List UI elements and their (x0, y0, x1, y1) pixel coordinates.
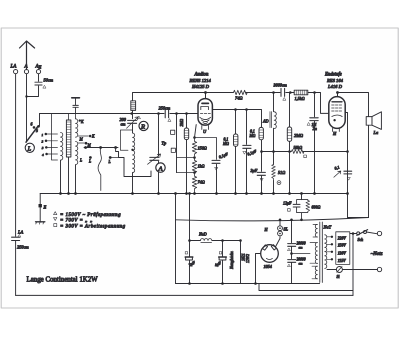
svg-text:74Ω: 74Ω (235, 95, 243, 100)
resistor 1.5kOhm wirewound (294, 90, 308, 95)
svg-text:3: 3 (42, 146, 44, 150)
legend square 300V (54, 224, 57, 227)
svg-text:Lange Continental 1K2W: Lange Continental 1K2W (27, 277, 99, 284)
choke AD (273, 93, 275, 112)
op tube Audion U1 (198, 99, 212, 126)
tap labels K M L (79, 119, 81, 121)
resistor 50kOhm (291, 150, 304, 154)
trimmer 200cm (128, 120, 137, 123)
mains terminal 1 (377, 231, 381, 235)
capacitor 3000cm (281, 88, 285, 96)
capacitor 4uF (222, 241, 224, 258)
antenna symbol (20, 41, 35, 70)
svg-text:3000cm: 3000cm (274, 83, 287, 88)
resistor 74 Ohm plate (233, 90, 247, 94)
power box top wire (176, 218, 369, 221)
svg-text:cm: cm (299, 262, 304, 266)
return wire lower (259, 284, 353, 291)
svg-text:MΩ: MΩ (222, 142, 229, 146)
cathode node wire (195, 125, 197, 138)
wire riser to grid line (39, 114, 41, 127)
svg-text:2MΩ: 2MΩ (294, 133, 304, 138)
common wire (52, 114, 58, 161)
legend triangle 700V (54, 218, 57, 221)
contact leads (47, 134, 58, 154)
svg-text:Sch: Sch (358, 238, 364, 242)
svg-text:250cm: 250cm (159, 106, 171, 111)
svg-text:600Ω: 600Ω (312, 205, 321, 210)
primary taps (327, 237, 332, 259)
mains switch Sch (350, 233, 357, 235)
selector down wire (352, 234, 354, 296)
svg-text:115V: 115V (338, 259, 347, 263)
resistor 0.1MOhm anode (235, 110, 237, 135)
coil stubs to grid wire (69, 114, 76, 121)
ground symbol (36, 221, 45, 223)
svg-text:= 300V = Arbeitsspannung: = 300V = Arbeitsspannung (60, 224, 126, 229)
rotor wire (84, 147, 118, 149)
primary winding (325, 235, 327, 269)
svg-text:La: La (373, 130, 379, 135)
svg-text:R: R (140, 124, 145, 131)
svg-text:2MΩ: 2MΩ (180, 119, 184, 127)
svg-text:~Netz: ~Netz (371, 251, 383, 257)
svg-text:= 700V = „ „: = 700V = „ „ (60, 219, 93, 224)
resistor 51 Ohm (272, 164, 276, 180)
svg-text:1: 1 (42, 133, 44, 137)
svg-text:1054: 1054 (264, 264, 272, 269)
HT feed wire (189, 194, 191, 257)
svg-text:LA: LA (10, 65, 18, 70)
svg-text:AD: AD (262, 119, 269, 124)
svg-text:L: L (88, 160, 91, 164)
svg-text:cm: cm (299, 246, 304, 250)
terminal LA (14, 70, 18, 74)
circled L wave switch (25, 143, 34, 152)
svg-text:L: L (27, 145, 32, 152)
capacitor 3uF (257, 172, 265, 175)
link loop around coil (120, 130, 132, 150)
coil L2 hatched winding (66, 120, 71, 157)
svg-text:RENS 1214: RENS 1214 (189, 78, 212, 83)
svg-text:Netzgleichr.: Netzgleichr. (230, 251, 234, 270)
svg-text:6: 6 (31, 123, 33, 127)
rectifier tube 1054 (261, 245, 279, 263)
svg-text:LA: LA (17, 230, 23, 235)
secondary windings (315, 224, 317, 237)
oscillator coil (132, 124, 134, 133)
svg-text:RES 164: RES 164 (326, 78, 344, 83)
capacitor LA 250cm (12, 237, 20, 240)
svg-text:51Ω: 51Ω (278, 170, 285, 175)
svg-text:12μF: 12μF (283, 201, 292, 206)
power box bottom wire (176, 283, 320, 285)
reaction winding (hatched) (131, 101, 136, 111)
detector line wire (262, 151, 348, 153)
svg-text:AH: AH (35, 65, 42, 70)
svg-text:Si: Si (337, 275, 340, 279)
svg-text:1021: 1021 (241, 253, 245, 261)
tuning capacitor A (158, 114, 160, 157)
wire to tuning cap (116, 148, 151, 177)
svg-text:150Ω: 150Ω (198, 146, 207, 151)
legend triangle 1500V (54, 212, 57, 215)
switch shaft wavy link (98, 148, 101, 191)
svg-text:L416 D: L416 D (327, 84, 343, 89)
capacitor 2uF (186, 257, 193, 260)
antenna trimmer T (72, 97, 80, 99)
resistor 1kOhm (192, 158, 196, 173)
antenna coil L1 (loops) (61, 133, 63, 161)
grid leak 2MOhm (186, 114, 188, 129)
svg-text:220V: 220V (338, 236, 347, 240)
resistor 0.1MOhm coupling (259, 127, 263, 139)
wire LA to bottom border (15, 241, 17, 295)
svg-text:5: 5 (36, 129, 38, 133)
svg-text:cm: cm (121, 121, 126, 126)
svg-text:L: L (108, 160, 111, 164)
circled R (139, 121, 148, 130)
svg-text:12W2: 12W2 (246, 254, 250, 263)
svg-text:3μF: 3μF (251, 168, 258, 173)
svg-text:Endstufe: Endstufe (324, 73, 343, 78)
svg-text:SL: SL (284, 227, 289, 232)
grid capacitor Endstufe (314, 93, 316, 117)
cathode bypass cap 0.1uF (212, 160, 220, 163)
switch contacts 1-4 (45, 133, 48, 136)
contact L (89, 156, 92, 159)
resistor 2MOhm output grid leak (289, 93, 291, 128)
loudspeaker La (366, 117, 372, 126)
contacts K M mid (78, 136, 88, 143)
wire LA down left border (15, 74, 17, 236)
svg-text:74Ω: 74Ω (198, 180, 205, 185)
power box left wire (175, 194, 177, 284)
resistor 74 Ohm cathode (192, 173, 196, 194)
contact M (109, 156, 112, 159)
coil ground lead (60, 160, 62, 193)
secondary stubs (310, 224, 317, 278)
bottom border wire (16, 294, 353, 296)
svg-text:50kΩ: 50kΩ (294, 145, 303, 150)
op tube Endstufe (329, 97, 345, 129)
svg-text:1kΩ: 1kΩ (198, 164, 205, 169)
wire A down (26, 74, 28, 142)
smoothing caps 20000cm (291, 220, 293, 243)
capacitor 250cm grid series (165, 110, 168, 118)
fuse Si (336, 267, 342, 273)
svg-text:130V: 130V (338, 251, 347, 255)
svg-text:250cm: 250cm (17, 245, 29, 250)
anode drop wire (345, 113, 347, 218)
tone capacitor 0.1uF variable (344, 171, 352, 174)
svg-text:MΩ: MΩ (249, 134, 256, 138)
pilot lamp SL (278, 231, 283, 236)
coil L3 (tapped loops) (76, 119, 78, 137)
svg-text:E: E (43, 205, 47, 210)
svg-text:150V: 150V (338, 244, 347, 248)
terminal A (24, 70, 28, 74)
svg-text:Tp: Tp (162, 141, 167, 146)
capacitor 50cm (27, 74, 43, 97)
feedback RC 12uF 600 Ohm (301, 194, 303, 200)
svg-text:= 1500V ~ Prüfspannung: = 1500V ~ Prüfspannung (60, 213, 121, 218)
reaction feed wire (133, 93, 206, 101)
anode wire (212, 110, 261, 128)
ground terminal E (39, 194, 41, 205)
bus corner to box (348, 217, 369, 219)
plate supply wire (206, 93, 329, 114)
svg-text:H4125 D: H4125 D (191, 84, 210, 89)
svg-text:50cm: 50cm (44, 78, 54, 83)
svg-text:K: K (91, 135, 95, 139)
band switch arm (26, 126, 38, 142)
grid wire (40, 113, 199, 115)
circled A (156, 163, 165, 172)
terminal AH (36, 70, 40, 74)
svg-text:4: 4 (42, 153, 44, 157)
resistor 150 Ohm (192, 138, 196, 157)
mains terminal 2 (377, 267, 381, 271)
chassis bus (40, 193, 347, 195)
Tp jacks (176, 114, 178, 173)
svg-text:NeT: NeT (323, 225, 332, 230)
capacitor 0.1uF anode (246, 110, 248, 145)
svg-text:2: 2 (42, 140, 44, 144)
tap selector box (336, 232, 350, 265)
wire tube to speaker line (338, 93, 369, 218)
svg-text:K: K (80, 120, 84, 124)
wire rectifier feed (240, 241, 242, 284)
svg-text:Audion: Audion (194, 73, 209, 78)
rectifier wiring (256, 254, 261, 284)
svg-text:L: L (79, 159, 82, 163)
svg-text:NeD: NeD (198, 232, 207, 237)
